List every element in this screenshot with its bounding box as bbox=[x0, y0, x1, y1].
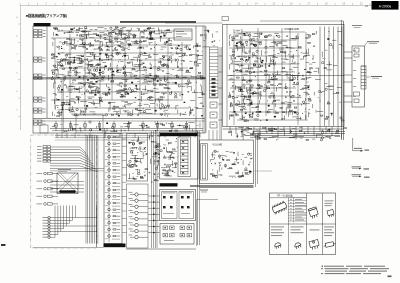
capacitor C121 bbox=[133, 157, 136, 159]
wire W904 bbox=[158, 163, 160, 166]
wire W101 bbox=[154, 31, 156, 35]
wire W363 bbox=[148, 105, 150, 107]
wire W614 bbox=[308, 54, 311, 56]
value label L37 bbox=[74, 73, 77, 76]
wire mid vertical pair b bbox=[63, 80, 65, 133]
wire W171 bbox=[105, 92, 107, 95]
resistor R252 bbox=[113, 196, 116, 197]
transistor Q120 bbox=[325, 88, 327, 90]
wire W448 bbox=[96, 126, 98, 129]
diode/blob D101 bbox=[146, 153, 148, 154]
wire W717 bbox=[300, 88, 304, 90]
transistor Q39 bbox=[167, 59, 169, 61]
flat amp label 3 bbox=[176, 35, 182, 38]
resistor R60 bbox=[73, 80, 76, 81]
resistor R105 bbox=[134, 75, 137, 76]
wire W323 bbox=[130, 73, 134, 75]
value label L154 bbox=[134, 160, 136, 163]
junction J67 bbox=[101, 100, 104, 103]
resistor R41 bbox=[148, 27, 151, 28]
wire W575 bbox=[257, 57, 259, 59]
diode/blob D74 bbox=[249, 57, 251, 58]
wire W319 bbox=[146, 77, 149, 79]
wire W864 bbox=[135, 168, 139, 170]
wire W825 bbox=[272, 135, 279, 137]
wire W562 bbox=[234, 71, 236, 72]
wire W910 bbox=[155, 145, 157, 148]
capacitor C81 bbox=[308, 72, 311, 74]
wire W342 bbox=[142, 88, 147, 90]
wire W168 bbox=[84, 83, 86, 85]
wire W324 bbox=[131, 90, 137, 92]
capacitor C76 bbox=[237, 42, 240, 44]
wire W495 bbox=[179, 52, 186, 54]
lower connector stack group 2 bbox=[37, 172, 59, 205]
value label L65 bbox=[146, 92, 148, 95]
transistor Q113 bbox=[297, 82, 299, 84]
wire W899 bbox=[154, 160, 159, 162]
wire W632 bbox=[264, 63, 266, 68]
resistor R110 bbox=[108, 102, 111, 103]
capacitor C44 bbox=[168, 88, 171, 90]
wire W471 bbox=[185, 82, 188, 84]
wire W230 bbox=[75, 72, 81, 74]
value label L24 bbox=[84, 69, 87, 72]
wire W502 bbox=[175, 75, 178, 77]
capacitor C15 bbox=[168, 38, 171, 40]
resistor R223 bbox=[325, 118, 328, 119]
wire W757 bbox=[317, 111, 323, 113]
resistor R255 bbox=[113, 216, 116, 217]
wire W241 bbox=[80, 82, 84, 84]
wire W30 bbox=[78, 28, 83, 30]
wire W869 bbox=[130, 158, 135, 160]
wire W229 bbox=[99, 72, 102, 74]
value label L153 bbox=[128, 165, 130, 168]
value label L76 bbox=[122, 105, 124, 108]
wire W714 bbox=[295, 96, 302, 98]
transistor Q155 bbox=[127, 164, 129, 166]
connector J23 bbox=[44, 195, 47, 198]
wire W280 bbox=[170, 52, 172, 54]
wire W453 bbox=[139, 125, 144, 127]
capacitor C109 bbox=[301, 75, 304, 77]
wire W405 bbox=[55, 98, 57, 100]
wire W832 bbox=[242, 130, 247, 132]
capacitor C14 bbox=[117, 45, 120, 47]
wire W892 bbox=[148, 135, 150, 140]
wire W318 bbox=[166, 77, 171, 79]
wire W639 bbox=[282, 40, 287, 42]
capacitor C63 bbox=[176, 75, 179, 77]
resistor R118 bbox=[160, 114, 163, 115]
value label L3 bbox=[108, 31, 111, 34]
wire W390 bbox=[125, 104, 131, 106]
wire W566 bbox=[236, 47, 242, 49]
diode/blob D37 bbox=[154, 76, 156, 77]
wire W305 bbox=[134, 64, 137, 66]
wire W777 bbox=[333, 65, 337, 67]
wire W706 bbox=[242, 115, 244, 120]
diode/blob D91 bbox=[274, 116, 276, 118]
capacitor C99 bbox=[268, 81, 271, 83]
diode/blob D5 bbox=[83, 44, 85, 45]
value label L35 bbox=[90, 80, 93, 83]
wire W257 bbox=[112, 76, 114, 79]
wire W683 bbox=[248, 92, 254, 94]
transistor Q73 bbox=[183, 125, 185, 127]
value label L59 bbox=[119, 85, 122, 88]
label above cross box bbox=[58, 169, 71, 170]
matrix cross box bbox=[57, 173, 78, 194]
wire W235 bbox=[87, 52, 94, 54]
transistor Q8 bbox=[104, 37, 106, 39]
value label L144 bbox=[268, 73, 271, 76]
wire W109 bbox=[169, 40, 172, 42]
diode/blob D60 bbox=[201, 115, 203, 116]
transistor Q122 bbox=[340, 117, 342, 119]
wire W485 bbox=[184, 47, 187, 49]
diode/blob D98 bbox=[290, 131, 292, 132]
wire W416 bbox=[124, 105, 126, 107]
transistor Q17 bbox=[86, 90, 88, 92]
svg-text:VOLUME: VOLUME bbox=[213, 145, 223, 147]
diode/blob D38 bbox=[157, 80, 159, 82]
diode/blob D70 bbox=[261, 62, 263, 63]
diode/blob D58 bbox=[175, 82, 177, 84]
wire W900 bbox=[157, 150, 159, 156]
wire W399 bbox=[158, 99, 160, 103]
wire ladder to volume 1 bbox=[208, 130, 210, 140]
wire W300 bbox=[141, 91, 143, 95]
wire W387 bbox=[160, 107, 167, 109]
wire W137 bbox=[154, 30, 156, 32]
wire W52 bbox=[123, 33, 128, 35]
transistor Q136 bbox=[108, 162, 111, 165]
transistor Q67 bbox=[130, 114, 132, 116]
wire lower link bus 2 bbox=[55, 139, 148, 141]
junction J71 bbox=[90, 129, 93, 132]
resistor R33 bbox=[83, 43, 86, 44]
capacitor C108 bbox=[272, 73, 275, 75]
value label L159 bbox=[143, 154, 145, 157]
diode/blob D7 bbox=[163, 35, 165, 37]
wire W339 bbox=[123, 53, 127, 55]
resistor R76 bbox=[80, 60, 83, 61]
diode/blob D65 bbox=[214, 41, 215, 42]
wire from connector E27 bbox=[50, 206, 69, 224]
resistor R45 bbox=[141, 32, 144, 33]
junction J55 bbox=[162, 58, 165, 61]
wire W752 bbox=[285, 83, 287, 88]
wire W756 bbox=[329, 89, 334, 91]
resistor R231 bbox=[229, 131, 232, 132]
wire W618 bbox=[307, 49, 309, 55]
resistor R256 bbox=[113, 222, 116, 223]
wire W332 bbox=[125, 79, 127, 82]
wire W528 bbox=[208, 30, 210, 33]
wire W868 bbox=[130, 147, 136, 149]
wire W679 bbox=[254, 118, 259, 120]
resistor R179 bbox=[275, 43, 278, 44]
wire W232 bbox=[106, 84, 108, 88]
wire W668 bbox=[238, 106, 243, 108]
wire W81 bbox=[81, 31, 85, 33]
resistor R160 bbox=[253, 65, 256, 66]
connector J24 bbox=[44, 203, 47, 206]
transistor Q5 bbox=[120, 33, 122, 35]
junction J121 bbox=[311, 58, 314, 61]
resistor R65 bbox=[93, 74, 96, 75]
resistor Rb9 bbox=[171, 121, 173, 131]
wire W102 bbox=[149, 32, 152, 34]
label above speaker box 2 bbox=[354, 26, 361, 29]
wire W25 bbox=[125, 40, 127, 43]
wire W320 bbox=[151, 78, 157, 80]
value label L8 bbox=[58, 29, 60, 32]
transistor Q4 bbox=[62, 42, 64, 44]
resistor R79 bbox=[53, 65, 56, 66]
transistor Q160 bbox=[135, 199, 138, 202]
transistor Q30 bbox=[60, 59, 62, 61]
wire W564 bbox=[232, 54, 234, 57]
circuit cluster UL-A phono eq bbox=[53, 26, 132, 51]
junction J1 bbox=[60, 45, 63, 48]
resistor R192 bbox=[244, 97, 247, 98]
junction J116 bbox=[301, 112, 304, 115]
diode/blob D95 bbox=[253, 71, 255, 72]
capacitor C73 bbox=[196, 50, 199, 52]
wire W34 bbox=[116, 27, 119, 29]
junction J63 bbox=[163, 107, 166, 110]
wire W62 bbox=[110, 42, 115, 44]
wire W655 bbox=[249, 79, 252, 81]
junction J119 bbox=[300, 103, 303, 106]
wire mid vertical pair a bbox=[61, 80, 63, 133]
wire W838 bbox=[317, 134, 323, 136]
capacitor C4 bbox=[119, 28, 122, 30]
resistor R198 bbox=[250, 117, 253, 118]
transistor Q100 bbox=[243, 106, 245, 108]
wire W147 bbox=[76, 77, 79, 79]
value label L158 bbox=[144, 171, 146, 174]
wire W106 bbox=[150, 32, 152, 37]
wire W265 bbox=[90, 86, 94, 88]
transistor Q71 bbox=[89, 129, 91, 131]
wire W663 bbox=[240, 91, 245, 93]
model label box bbox=[372, 1, 399, 10]
diode/blob D97 bbox=[237, 136, 239, 137]
wire W765 bbox=[315, 79, 321, 81]
transistor Q69 bbox=[89, 121, 91, 123]
junction J19 bbox=[61, 29, 64, 32]
wire W729 bbox=[266, 85, 268, 89]
wire supply bus bbox=[33, 118, 205, 120]
wire W563 bbox=[248, 50, 250, 53]
wire W907 bbox=[155, 153, 158, 155]
wire W715 bbox=[279, 87, 282, 89]
wire W245 bbox=[69, 91, 72, 93]
transistor Q28 bbox=[101, 77, 103, 79]
wire W146 bbox=[56, 77, 59, 79]
wire W723 bbox=[274, 103, 276, 107]
resistor R206 bbox=[294, 107, 297, 108]
wire W266 bbox=[111, 54, 113, 56]
wire W491 bbox=[198, 96, 203, 98]
output bus vertical wires bbox=[320, 27, 342, 127]
wire W809 bbox=[293, 74, 299, 76]
wire long cross 1 bbox=[50, 168, 104, 170]
wire W193 bbox=[92, 86, 98, 88]
wire W128 bbox=[134, 43, 139, 45]
wire W549 bbox=[235, 64, 239, 66]
label SPEAKERS A bbox=[365, 41, 380, 46]
diode/blob D59 bbox=[182, 94, 184, 95]
value label L29 bbox=[58, 89, 60, 92]
wire W707 bbox=[235, 104, 240, 106]
wire W531 bbox=[205, 34, 207, 39]
wire W207 bbox=[54, 67, 57, 69]
diode/blob D36 bbox=[124, 55, 126, 57]
resistor R82 bbox=[81, 55, 84, 56]
junction J136 bbox=[151, 134, 154, 137]
junction J109 bbox=[242, 98, 245, 101]
capacitor C30 bbox=[93, 58, 96, 60]
capacitor C84 bbox=[286, 35, 289, 37]
wire W799 bbox=[275, 74, 281, 76]
wire W662 bbox=[241, 96, 247, 98]
transistor Q40 bbox=[169, 56, 171, 58]
resistor R239 bbox=[264, 139, 267, 140]
resistor R260 bbox=[131, 166, 134, 167]
wire W820 bbox=[278, 130, 284, 132]
wire W466 bbox=[73, 124, 78, 126]
wire W134 bbox=[171, 40, 174, 42]
transistor Q38 bbox=[158, 66, 160, 68]
transistor Q98 bbox=[272, 60, 274, 62]
wire W121 bbox=[137, 27, 140, 29]
connector J19 bbox=[43, 160, 47, 162]
transistor Q70 bbox=[112, 126, 114, 128]
capacitor C106 bbox=[304, 87, 307, 89]
resistor R77 bbox=[63, 59, 66, 60]
wire W89 bbox=[69, 39, 75, 41]
wire W805 bbox=[306, 77, 308, 80]
wire W142 bbox=[86, 82, 92, 84]
circuit cluster PA-E output bus comps bbox=[312, 31, 344, 121]
capacitor C112 bbox=[321, 130, 324, 132]
resistor R189 bbox=[256, 111, 259, 112]
value label L106 bbox=[264, 52, 266, 55]
wire W260 bbox=[85, 72, 91, 74]
wire W649 bbox=[304, 54, 310, 56]
wire W151 bbox=[70, 68, 72, 71]
resistor R135 bbox=[194, 62, 197, 63]
wire W744 bbox=[286, 107, 290, 109]
wire W700 bbox=[254, 119, 258, 121]
value label L120 bbox=[237, 100, 240, 103]
wire W389 bbox=[109, 102, 111, 105]
value label L56 bbox=[137, 80, 139, 83]
junction J125 bbox=[239, 70, 242, 73]
resistor R99 bbox=[124, 88, 127, 89]
capacitor C53 bbox=[124, 111, 127, 113]
transistor Q102 bbox=[236, 103, 238, 105]
wire cross diagonal 1 bbox=[57, 173, 78, 194]
transistor Q32 bbox=[111, 80, 113, 82]
wire W779 bbox=[331, 114, 333, 116]
connector J15 bbox=[43, 149, 47, 151]
transistor Q53 bbox=[138, 55, 140, 57]
capacitor C55 bbox=[73, 102, 76, 104]
wire W53 bbox=[59, 41, 62, 43]
wire W361 bbox=[146, 112, 153, 114]
value label L155 bbox=[139, 146, 141, 149]
wire W302 bbox=[123, 55, 129, 57]
resistor R153 bbox=[250, 68, 253, 69]
wire W620 bbox=[265, 34, 269, 36]
resistor R158 bbox=[260, 33, 263, 34]
wire W70 bbox=[123, 47, 129, 49]
wire W267 bbox=[68, 75, 72, 77]
wire W401 bbox=[148, 96, 154, 98]
speaker relay box bbox=[352, 46, 365, 107]
wire W708 bbox=[233, 99, 235, 103]
wire W138 bbox=[65, 75, 67, 79]
wire W633 bbox=[269, 46, 275, 48]
value label L11 bbox=[53, 38, 56, 41]
wire W558 bbox=[239, 36, 241, 39]
wire W42 bbox=[85, 31, 91, 33]
diode/blob D23 bbox=[87, 79, 89, 81]
wire W787 bbox=[290, 75, 296, 77]
junction J8 bbox=[119, 29, 122, 32]
junction J69 bbox=[56, 106, 59, 109]
resistor R139 bbox=[202, 94, 205, 95]
wires amp to speaker box bbox=[344, 52, 353, 102]
resistor R50 bbox=[90, 65, 93, 66]
wire W797 bbox=[230, 75, 233, 77]
wire W123 bbox=[161, 31, 164, 33]
wire W251 bbox=[84, 58, 87, 60]
diode/blob D31 bbox=[123, 68, 125, 69]
wire W209 bbox=[108, 89, 110, 94]
wire W465 bbox=[120, 126, 123, 128]
capacitor C103 bbox=[286, 91, 289, 93]
wire W35 bbox=[105, 39, 112, 41]
wire W295 bbox=[119, 89, 123, 91]
value label L80 bbox=[184, 128, 186, 131]
label above speaker box bbox=[352, 24, 362, 27]
wire W694 bbox=[244, 103, 246, 106]
transistor Q27 bbox=[79, 58, 81, 60]
value label L12 bbox=[68, 31, 70, 34]
wire W559 bbox=[242, 48, 244, 52]
diode/blob D2 bbox=[71, 29, 73, 31]
value label L78 bbox=[75, 96, 78, 99]
junction J39 bbox=[68, 71, 71, 74]
value label L136 bbox=[283, 117, 285, 120]
value label L40 bbox=[119, 68, 122, 71]
junction J102 bbox=[257, 96, 260, 99]
transistor Q97 bbox=[284, 51, 286, 53]
resistor R241 bbox=[336, 130, 339, 131]
sub-box lower mid bbox=[76, 115, 103, 133]
junction J60 bbox=[121, 55, 124, 58]
resistor R270 bbox=[153, 153, 156, 154]
resistor R25 bbox=[122, 49, 125, 50]
wire W368 bbox=[80, 109, 82, 114]
